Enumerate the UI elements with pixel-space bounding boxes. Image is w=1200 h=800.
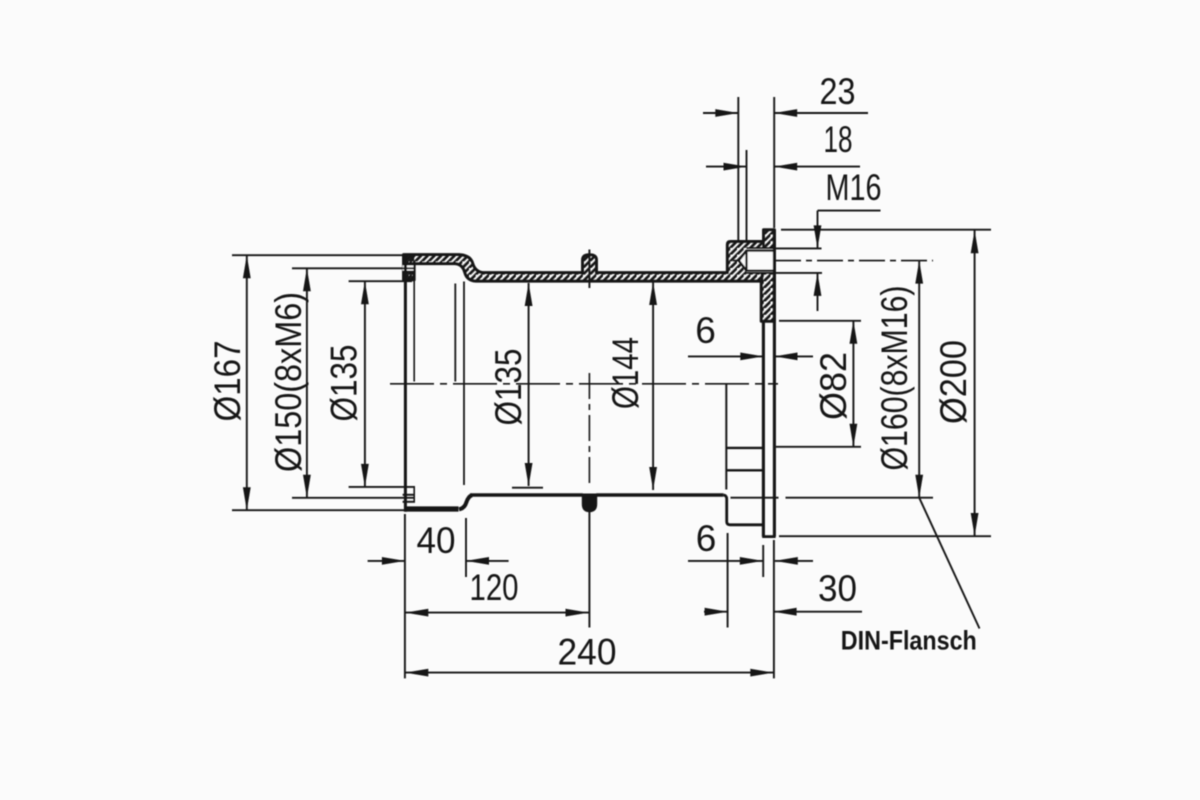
DIN flange faces (bottom part) xyxy=(762,321,765,536)
bore start edge at bend xyxy=(463,282,465,486)
dim Ø144 xyxy=(652,282,654,490)
svg-text:6: 6 xyxy=(695,310,716,351)
tube bottom wall xyxy=(470,493,583,496)
svg-text:Ø160(8xM16): Ø160(8xM16) xyxy=(874,286,915,471)
main axis centerline xyxy=(390,383,778,385)
svg-text:Ø82: Ø82 xyxy=(813,352,854,420)
svg-text:M16: M16 xyxy=(826,167,882,208)
svg-text:Ø144: Ø144 xyxy=(605,337,646,409)
right boss (bottom) outline xyxy=(723,495,763,525)
dim Ø135 left xyxy=(349,280,412,282)
M6 tapped hole in left flange (bottom) xyxy=(403,494,415,496)
svg-text:30: 30 xyxy=(818,568,857,609)
DIN flange right face (over hole) xyxy=(773,230,776,322)
ridge centerline xyxy=(588,250,590,289)
svg-text:Ø200: Ø200 xyxy=(933,340,974,424)
M16 tapped hole in DIN flange (top) xyxy=(739,248,775,273)
dim 6 (flange thickness, bottom) xyxy=(762,545,764,577)
internal step face edge xyxy=(725,384,727,490)
dim Ø82 xyxy=(779,320,861,322)
svg-text:120: 120 xyxy=(470,567,519,608)
flange body top cross-section (hatched) xyxy=(404,230,775,322)
svg-text:18: 18 xyxy=(824,119,853,160)
svg-text:40: 40 xyxy=(417,520,456,561)
svg-text:DIN-Flansch: DIN-Flansch xyxy=(841,625,977,655)
M6 tapped hole in left flange (top) xyxy=(403,264,415,271)
band inner projection edge xyxy=(454,284,456,382)
dim 40 xyxy=(465,518,467,577)
svg-text:23: 23 xyxy=(820,71,856,112)
dim 120 xyxy=(405,612,588,614)
dim 18 (thread depth) xyxy=(746,150,748,240)
dim Ø135 middle xyxy=(512,487,543,489)
dim Ø167 xyxy=(232,254,404,256)
dim Ø200 xyxy=(781,229,991,231)
svg-text:Ø150(8xM6): Ø150(8xM6) xyxy=(268,292,309,472)
left flange bottom band xyxy=(405,506,459,511)
svg-text:6: 6 xyxy=(696,518,717,559)
svg-text:Ø135: Ø135 xyxy=(488,349,529,426)
bottom ridge bump xyxy=(583,494,595,511)
label DIN-Flansch with leader xyxy=(919,498,979,629)
dim 23 (drill depth) xyxy=(737,97,739,240)
M16 hole axis centerline / bolt-circle line xyxy=(733,260,933,262)
dim Ø160(8xM16) xyxy=(731,497,779,499)
left flange face line xyxy=(404,255,407,512)
dim Ø150(8xM6) xyxy=(292,267,415,269)
label M16 with leader arrows xyxy=(818,210,881,212)
internal groove lines xyxy=(726,447,763,449)
dim 6 (flange web, top) xyxy=(688,355,763,357)
dim 240 xyxy=(404,514,406,678)
svg-text:Ø135: Ø135 xyxy=(324,345,365,422)
svg-text:Ø167: Ø167 xyxy=(207,341,248,422)
left flange disk back edge xyxy=(413,264,415,382)
svg-text:240: 240 xyxy=(558,632,617,673)
left flange disk densify xyxy=(404,256,415,280)
dim 30 xyxy=(727,533,729,628)
